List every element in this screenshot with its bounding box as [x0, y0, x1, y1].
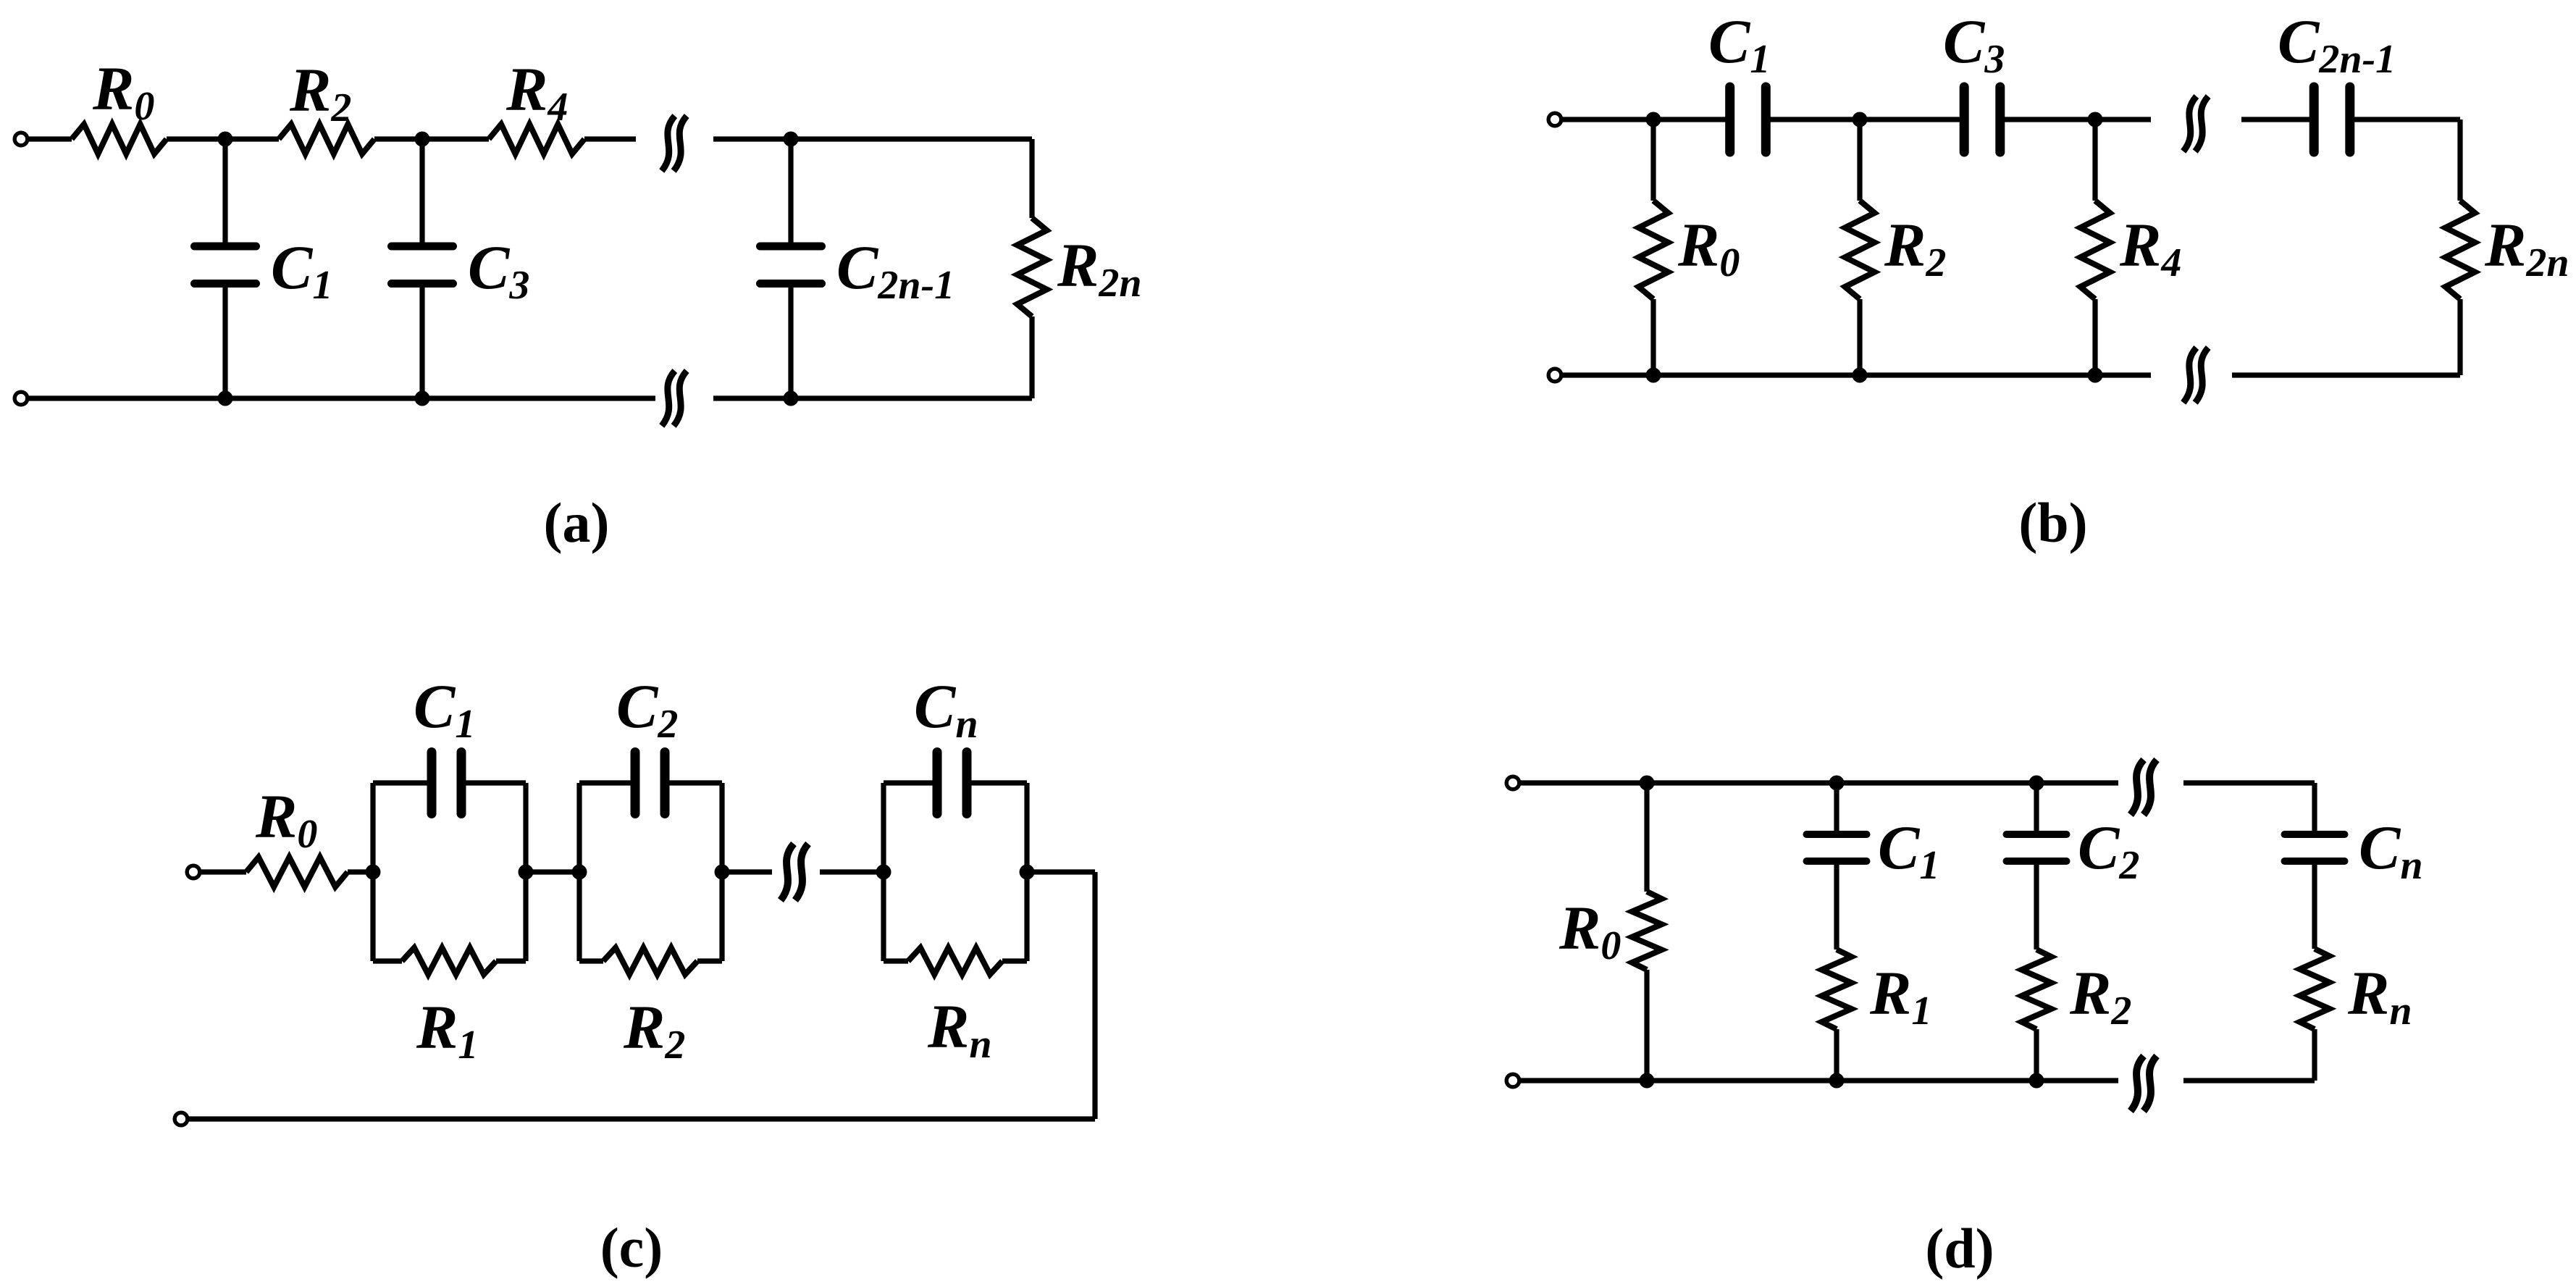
- svg-text:R2n: R2n: [2484, 210, 2569, 285]
- svg-text:R0: R0: [255, 781, 317, 857]
- svg-text:R0: R0: [92, 54, 154, 129]
- svg-text:C1: C1: [1708, 7, 1770, 82]
- svg-text:(d): (d): [1925, 1217, 1994, 1280]
- svg-text:R2n: R2n: [1057, 230, 1142, 306]
- svg-text:(c): (c): [600, 1216, 663, 1279]
- svg-text:Rn: Rn: [927, 992, 992, 1067]
- svg-text:R0: R0: [1677, 210, 1740, 285]
- svg-text:Cn: Cn: [914, 671, 978, 747]
- svg-text:R2: R2: [289, 55, 351, 130]
- svg-text:C1: C1: [271, 232, 332, 308]
- svg-text:R1: R1: [1869, 958, 1931, 1034]
- svg-text:C2n-1: C2n-1: [836, 232, 955, 308]
- svg-text:Rn: Rn: [2347, 958, 2412, 1034]
- svg-text:R4: R4: [2119, 210, 2181, 285]
- svg-text:R2: R2: [2069, 958, 2131, 1034]
- svg-text:R2: R2: [623, 992, 685, 1068]
- svg-text:C2: C2: [2078, 813, 2139, 888]
- svg-text:C3: C3: [1943, 7, 2005, 82]
- svg-text:R2: R2: [1884, 210, 1946, 285]
- svg-text:Cn: Cn: [2359, 813, 2423, 888]
- svg-text:C2n-1: C2n-1: [2278, 7, 2396, 82]
- svg-text:R4: R4: [505, 54, 568, 130]
- svg-text:R1: R1: [416, 992, 478, 1068]
- svg-text:(a): (a): [544, 491, 610, 554]
- svg-text:(b): (b): [2018, 491, 2087, 554]
- svg-text:C1: C1: [1878, 813, 1939, 888]
- svg-text:C1: C1: [414, 671, 475, 747]
- svg-text:C2: C2: [616, 671, 678, 747]
- svg-text:R0: R0: [1558, 893, 1621, 968]
- svg-text:C3: C3: [468, 232, 529, 308]
